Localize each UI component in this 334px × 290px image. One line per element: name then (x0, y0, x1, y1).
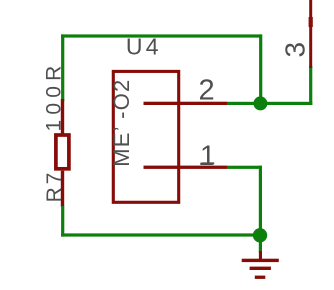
svg-text:ME’ -O2: ME’ -O2 (109, 79, 134, 167)
pin 3 line (red, from off-screen component above) (309, 0, 312, 68)
svg-text:U4: U4 (126, 34, 162, 60)
svg-text:3: 3 (280, 42, 311, 58)
svg-text:100R: 100R (42, 60, 65, 131)
pin 1 line (red) (144, 166, 228, 169)
svg-text:1: 1 (200, 140, 216, 171)
pin 2 line (red) (144, 102, 228, 105)
pin 3 notch (309, 17, 313, 27)
wire: vertical down to ground junction (259, 166, 262, 236)
junction node (ground net) (253, 228, 267, 242)
svg-text:R7: R7 (43, 170, 66, 202)
body (56, 135, 69, 169)
ground stub wire (259, 242, 262, 253)
pin bottom (61, 171, 64, 207)
IC U4 (gas sensor ME2-O2) body (113, 71, 178, 202)
wire: bottom left vertical (61, 206, 64, 237)
wire: right vertical down to junction (259, 34, 262, 104)
junction node (pin2 net) (253, 96, 267, 110)
wire net top: left vertical segment (61, 34, 64, 101)
wire: right edge vertical up (309, 66, 312, 105)
pin 1 number foot serif (200, 163, 212, 165)
wire from pin 2 to right corner (227, 102, 312, 105)
wire net top: horizontal segment (61, 34, 261, 37)
resistor R7 (56, 99, 69, 207)
svg-text:2: 2 (199, 74, 215, 106)
ground symbol (242, 251, 279, 279)
pin top (61, 99, 64, 134)
wire: bottom horizontal (61, 233, 262, 236)
wire from pin 1 to corner (227, 166, 262, 169)
